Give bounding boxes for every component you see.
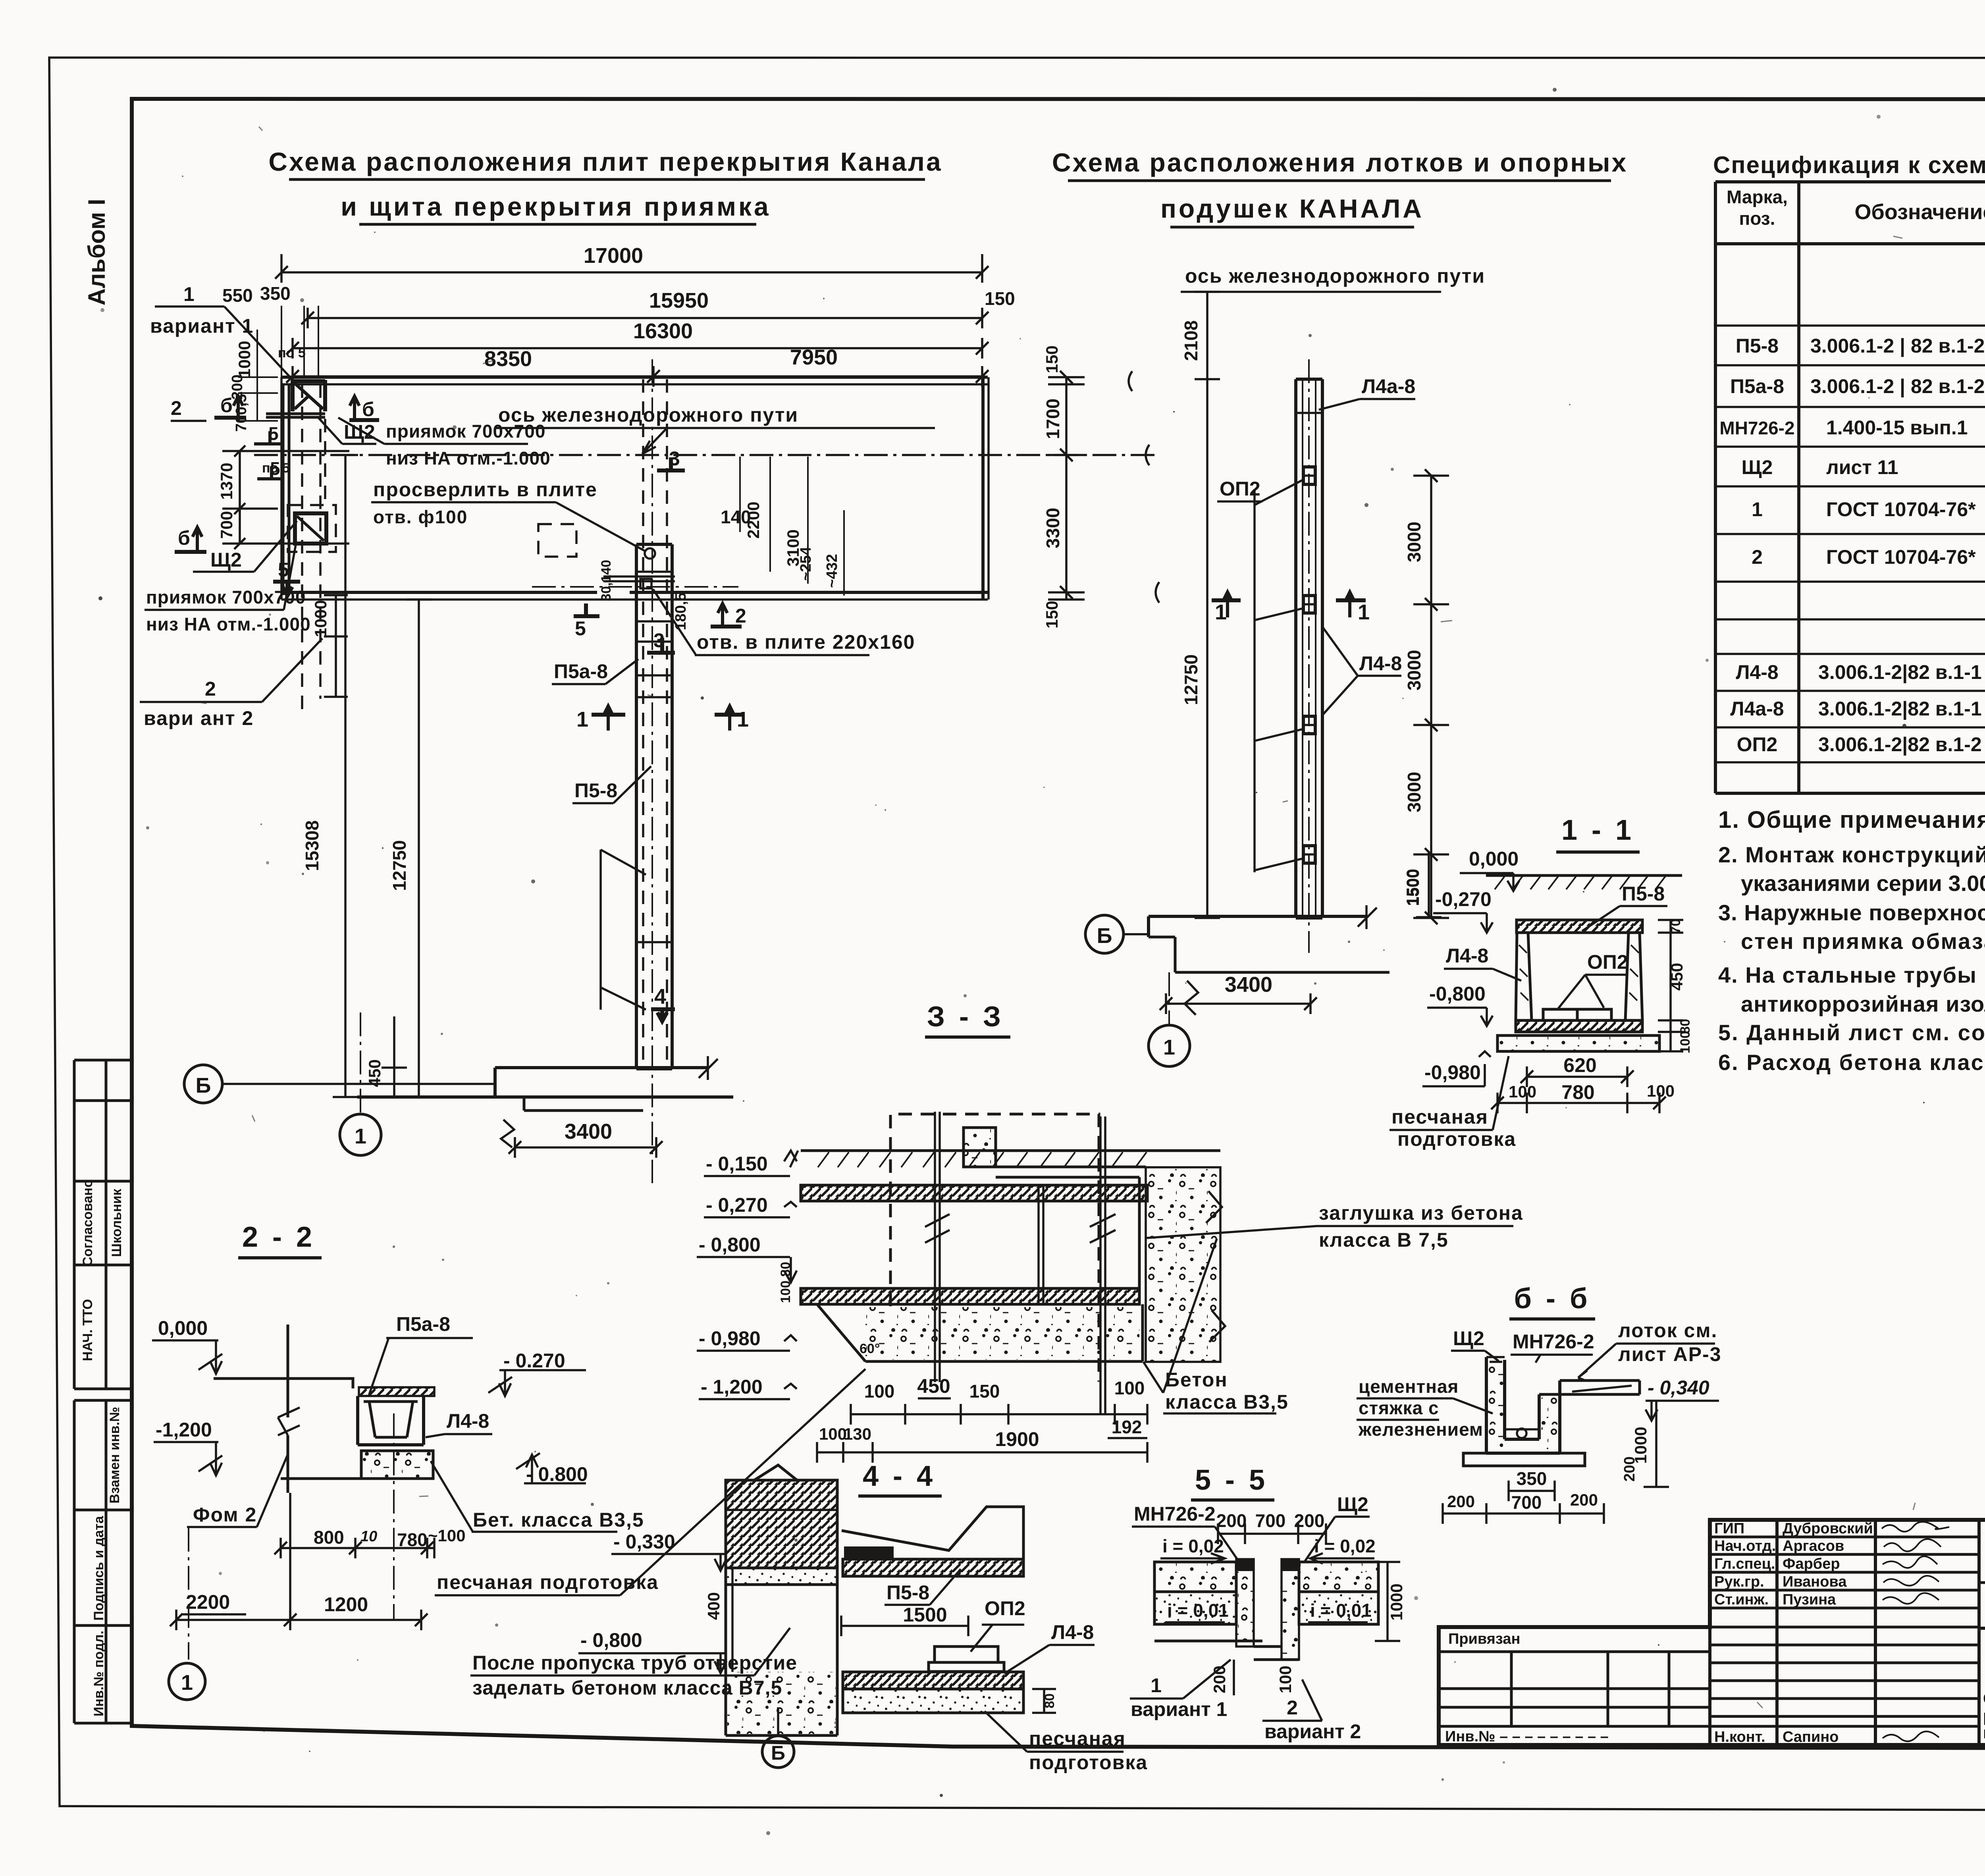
svg-text:1: 1 xyxy=(183,283,195,305)
svg-text:- 0,330: - 0,330 xyxy=(613,1531,675,1553)
level -0,800 xyxy=(1427,983,1493,1026)
svg-text:3000: 3000 xyxy=(1404,522,1424,562)
label П5-8 xyxy=(572,766,651,803)
svg-text:150: 150 xyxy=(985,288,1015,309)
section mark 5 near canal xyxy=(574,603,599,640)
svg-text:лоток см.: лоток см. xyxy=(1618,1319,1717,1342)
section mark 2 right xyxy=(711,603,746,628)
svg-text:вари ант 2: вари ант 2 xyxy=(144,707,254,729)
dashed small rect near canal junction xyxy=(538,524,576,557)
svg-text:- 0,270: - 0,270 xyxy=(706,1194,768,1216)
svg-text:3300: 3300 xyxy=(1043,508,1063,548)
section б-б title xyxy=(1509,1283,1595,1319)
label после пропуска труб xyxy=(470,1628,797,1699)
label: отв. в плите 220х160 xyxy=(653,589,915,655)
svg-text:- 0.270: - 0.270 xyxy=(503,1350,565,1372)
П5-8 slab band 4-4 xyxy=(843,1559,1023,1576)
svg-text:П5-8: П5-8 xyxy=(887,1581,929,1604)
level -0,270 sec2-2 xyxy=(488,1350,586,1396)
svg-text:Пузина: Пузина xyxy=(1783,1591,1836,1608)
svg-text:лист 11: лист 11 xyxy=(1826,456,1898,478)
svg-text:~254: ~254 xyxy=(798,547,814,581)
svg-text:3.006.1-2|82 в.1-1: 3.006.1-2|82 в.1-1 xyxy=(1818,661,1982,684)
ground top line sec2-2 xyxy=(214,1379,353,1388)
svg-text:780: 780 xyxy=(397,1529,428,1550)
svg-text:15308: 15308 xyxy=(302,820,322,871)
svg-text:песчаная: песчаная xyxy=(1029,1728,1126,1750)
label МН726-2 5-5 xyxy=(1132,1503,1239,1562)
svg-text:Схемы расположения плит перек: Схемы расположения плит перек xyxy=(1983,1689,1985,1708)
svg-text:620: 620 xyxy=(1563,1054,1596,1076)
svg-text:3400: 3400 xyxy=(565,1120,612,1143)
svg-text:1: 1 xyxy=(181,1671,193,1695)
svg-text:Схема расположения лотков и оп: Схема расположения лотков и опорных xyxy=(1052,148,1628,177)
black embed bar МН726-2 4-4 xyxy=(844,1546,894,1558)
svg-text:Рук.гр.: Рук.гр. xyxy=(1714,1573,1764,1590)
svg-text:ГИП: ГИП xyxy=(1714,1520,1744,1537)
dim 780 + 100s xyxy=(1491,1081,1675,1113)
svg-text:Аргасов: Аргасов xyxy=(1783,1538,1844,1554)
svg-text:4. На стальные трубы позици: 4. На стальные трубы позиции 1,2 наносит… xyxy=(1718,962,1985,987)
sand layer 4-4 xyxy=(843,1689,1023,1713)
svg-text:просверлить в плите: просверлить в плите xyxy=(373,478,597,501)
ground line 1-1 xyxy=(1486,875,1682,889)
svg-text:0,000: 0,000 xyxy=(158,1317,208,1339)
svg-text:Щ2: Щ2 xyxy=(1742,456,1773,478)
dim 15950 xyxy=(301,289,989,328)
svg-text:- 0,800: - 0,800 xyxy=(580,1629,642,1651)
svg-text:1: 1 xyxy=(1358,600,1370,624)
svg-text:1: 1 xyxy=(1215,600,1227,624)
diagonal plate marks xyxy=(601,850,646,1010)
svg-text:ГОСТ 10704-76*: ГОСТ 10704-76* xyxy=(1826,498,1976,521)
section 3-3 title xyxy=(925,1001,1010,1037)
svg-text:80: 80 xyxy=(1042,1693,1057,1708)
svg-text:низ НА отм.-1.000: низ НА отм.-1.000 xyxy=(146,614,311,634)
svg-text:Л4-8: Л4-8 xyxy=(447,1410,489,1432)
svg-text:вариант 1: вариант 1 xyxy=(1131,1698,1227,1720)
svg-text:ОП2: ОП2 xyxy=(1737,733,1778,756)
svg-text:70: 70 xyxy=(1668,919,1683,934)
dim 620 xyxy=(1521,1054,1634,1087)
svg-text:700: 700 xyxy=(1511,1492,1542,1513)
svg-text:вариант 2: вариант 2 xyxy=(1264,1720,1361,1743)
row П5-8 xyxy=(1736,335,1985,357)
svg-text:по 5: по 5 xyxy=(278,345,306,361)
svg-text:б: б xyxy=(362,398,374,420)
row Щ2 xyxy=(1742,456,1985,478)
svg-text:Фом 2: Фом 2 xyxy=(193,1504,257,1526)
level 0,000 sec2-2 xyxy=(152,1317,222,1374)
dim 2108 xyxy=(1181,292,1220,379)
svg-text:16300: 16300 xyxy=(633,319,693,343)
small dims near canal junction xyxy=(599,457,844,630)
svg-text:100,80: 100,80 xyxy=(778,1262,793,1303)
svg-text:700: 700 xyxy=(217,511,236,539)
svg-text:П5-8: П5-8 xyxy=(1622,883,1665,905)
section 5-5 title xyxy=(1191,1464,1274,1500)
axis circle 1 sec2-2 xyxy=(169,1528,205,1700)
svg-text:Л4а-8: Л4а-8 xyxy=(1730,698,1784,720)
vertical dim 15308 xyxy=(302,455,358,1097)
axis circle Б xyxy=(184,1065,495,1103)
support pads on column xyxy=(1303,467,1315,863)
svg-text:класса В 7,5: класса В 7,5 xyxy=(1319,1229,1449,1251)
svg-text:Гл.спец.: Гл.спец. xyxy=(1714,1556,1775,1572)
svg-text:17000: 17000 xyxy=(584,244,643,268)
section marks 1 pair xyxy=(576,706,749,731)
pit vertical edges xyxy=(283,384,289,595)
lower slab band 4-4 xyxy=(843,1672,1023,1689)
right dim chain 3000x3+1500 xyxy=(1403,469,1449,924)
svg-text:3.006.1-2 | 82 в.1-2: 3.006.1-2 | 82 в.1-2 xyxy=(1810,375,1985,398)
svg-text:- 0,800: - 0,800 xyxy=(699,1234,761,1256)
label Щ2 5-5 xyxy=(1304,1493,1370,1562)
section mark 5 upper xyxy=(254,423,284,479)
svg-text:П5а-8: П5а-8 xyxy=(396,1313,450,1335)
svg-text:ОП2: ОП2 xyxy=(985,1597,1025,1620)
svg-text:Школьник: Школьник xyxy=(109,1188,124,1257)
label МН726-2 б-б xyxy=(1511,1330,1594,1363)
levels 3-3 xyxy=(697,1151,798,1399)
svg-text:100: 100 xyxy=(1276,1666,1295,1693)
svg-text:МН726-2: МН726-2 xyxy=(1719,418,1794,438)
svg-text:3.006.1-2 | 82 в.1-2: 3.006.1-2 | 82 в.1-2 xyxy=(1810,335,1985,357)
sheet name xyxy=(1983,1689,1985,1757)
label Фом2 xyxy=(187,1454,288,1527)
svg-text:2: 2 xyxy=(1752,546,1763,568)
svg-text:1: 1 xyxy=(1752,498,1763,521)
variant 1 callout xyxy=(150,283,295,382)
svg-text:30,140: 30,140 xyxy=(599,560,614,601)
svg-text:Дубровский: Дубровский xyxy=(1783,1520,1873,1537)
row ОП2 xyxy=(1737,733,1985,756)
level -0,270 xyxy=(1433,888,1493,933)
svg-text:МН726-2: МН726-2 xyxy=(1513,1330,1594,1353)
svg-text:5. Данный лист см. совместн: 5. Данный лист см. совместно с листами м… xyxy=(1718,1020,1985,1045)
svg-text:200: 200 xyxy=(1447,1492,1475,1511)
break marks on rebar xyxy=(925,1214,1116,1243)
svg-text:1: 1 xyxy=(576,708,588,731)
dims 200 100 5-5 xyxy=(1210,1660,1295,1695)
svg-text:3000: 3000 xyxy=(1404,650,1424,690)
big doc number xyxy=(1979,1531,1985,1583)
section mark б lower-left xyxy=(175,527,206,553)
svg-text:Б: Б xyxy=(196,1074,211,1097)
small hole square xyxy=(640,579,651,588)
second slab band 3-3 xyxy=(801,1288,1139,1304)
role names xyxy=(1714,1520,1776,1745)
svg-text:2200: 2200 xyxy=(186,1591,230,1613)
svg-text:10: 10 xyxy=(360,1528,377,1545)
concrete block sec2-2 xyxy=(361,1451,433,1479)
label Щ2 б-б xyxy=(1451,1327,1499,1361)
title underline 1 xyxy=(289,178,925,181)
axis circle Б drawing2 xyxy=(1085,915,1149,953)
label П5-8 4-4 xyxy=(885,1569,961,1605)
svg-text:стен приямка обмазать горяч: стен приямка обмазать горячим битумом за… xyxy=(1741,929,1985,954)
svg-text:100: 100 xyxy=(1647,1082,1675,1100)
pad ОП2 4-4 xyxy=(929,1647,1004,1672)
svg-text:Щ2: Щ2 xyxy=(1337,1493,1368,1515)
svg-text:класса В3,5: класса В3,5 xyxy=(1165,1391,1289,1413)
svg-text:4: 4 xyxy=(654,985,666,1008)
pit (приямок) variant 1 top : Щ2 shield xyxy=(266,380,325,417)
top slab hatched sec2-2 xyxy=(359,1387,434,1396)
svg-text:П5-8: П5-8 xyxy=(574,779,617,802)
foundation mass 3-3 xyxy=(801,1304,1143,1361)
svg-text:1000: 1000 xyxy=(235,341,254,378)
level -0,800 sec2-2 xyxy=(516,1453,588,1485)
svg-text:Б: Б xyxy=(771,1742,785,1764)
label песчаная подготовка 1-1 xyxy=(1389,1056,1516,1150)
svg-text:ось железнодорожного пути: ось железнодорожного пути xyxy=(1185,265,1485,287)
svg-text:заглушка из бетона: заглушка из бетона xyxy=(1319,1202,1523,1224)
trough centerline sec2-2 xyxy=(393,1413,395,1620)
row МН726-2 xyxy=(1719,416,1985,439)
title block outline xyxy=(1439,1520,1985,1745)
svg-text:Привязан: Привязан xyxy=(1448,1631,1520,1647)
label Л4-8 xyxy=(1323,627,1402,715)
axis circle Б 4-4 xyxy=(762,1707,794,1768)
label: просверлить в плите отв. ф100 xyxy=(371,478,645,551)
svg-text:Щ2: Щ2 xyxy=(344,421,375,443)
svg-text:рытия КАНАЛА и щита перекрытия: рытия КАНАЛА и щита перекрытия xyxy=(1983,1706,1985,1725)
svg-text:1000: 1000 xyxy=(1387,1583,1406,1620)
svg-text:2: 2 xyxy=(205,678,216,700)
plate joint lines on vertical canal xyxy=(603,572,675,942)
svg-text:400: 400 xyxy=(704,1592,723,1620)
dims 350 700 200 б-б xyxy=(1443,1468,1604,1524)
svg-text:Схема расположения плит пер: Схема расположения плит перекрытия Канал… xyxy=(268,147,942,176)
variant 2 callout xyxy=(140,638,322,729)
dim 16300 xyxy=(286,319,989,359)
svg-text:1. Общие примечания см. лист: 1. Общие примечания см. лист 1. xyxy=(1718,806,1985,833)
section mark 5 lower xyxy=(273,559,300,596)
stage row xyxy=(1979,1628,1985,1745)
svg-text:б - б: б - б xyxy=(1514,1283,1591,1315)
svg-text:780: 780 xyxy=(1561,1081,1594,1103)
i=0,02 labels 5-5 xyxy=(1160,1536,1376,1564)
svg-text:3000: 3000 xyxy=(1404,772,1424,812)
trough Л4-8 sec2-2 xyxy=(358,1396,424,1445)
vertical canal band xyxy=(636,359,672,1183)
svg-text:ОП2: ОП2 xyxy=(1587,951,1628,973)
dims 2200 1200 xyxy=(170,1493,428,1630)
svg-text:Инв.№ – – – – – – – –: Инв.№ – – – – – – – – – xyxy=(1445,1728,1609,1745)
table grid xyxy=(1715,182,1985,793)
dim 3400 plan xyxy=(509,1120,663,1158)
svg-text:3.006.1-2|82 в.1-1: 3.006.1-2|82 в.1-1 xyxy=(1818,698,1982,720)
svg-text:Л4-8: Л4-8 xyxy=(1446,945,1488,967)
svg-text:Бетон: Бетон xyxy=(1165,1369,1228,1391)
svg-text:Л4-8: Л4-8 xyxy=(1736,661,1778,683)
dim 12750 drawing2 xyxy=(1181,379,1220,918)
svg-text:i = 0,02: i = 0,02 xyxy=(1162,1536,1224,1556)
svg-text:3400: 3400 xyxy=(1225,973,1272,997)
svg-text:- 0.800: - 0.800 xyxy=(526,1463,588,1485)
canal band top edge xyxy=(281,376,988,379)
svg-text:1: 1 xyxy=(355,1124,366,1148)
svg-text:1900: 1900 xyxy=(995,1428,1039,1450)
label цементная стяжка xyxy=(1357,1376,1493,1440)
svg-text:192: 192 xyxy=(1112,1417,1142,1437)
svg-text:Щ2: Щ2 xyxy=(210,549,242,571)
svg-text:Л4-8: Л4-8 xyxy=(1051,1621,1094,1643)
svg-text:2: 2 xyxy=(735,605,746,627)
svg-text:поз.: поз. xyxy=(1739,208,1775,229)
channel б-б xyxy=(1486,1357,1560,1453)
svg-text:Согласовано: Согласовано xyxy=(80,1179,95,1267)
svg-text:-0,800: -0,800 xyxy=(1429,983,1486,1005)
walls 5-5 xyxy=(1236,1559,1299,1660)
svg-text:5 - 5: 5 - 5 xyxy=(1195,1464,1268,1496)
margin stamp boxes lower xyxy=(74,1400,132,1723)
svg-text:низ НА отм.-1.000: низ НА отм.-1.000 xyxy=(386,448,551,469)
right concrete mass 3-3 xyxy=(1146,1167,1225,1362)
svg-text:подготовка: подготовка xyxy=(1029,1751,1148,1774)
svg-text:180,5: 180,5 xyxy=(673,592,689,630)
svg-text:5: 5 xyxy=(575,617,586,640)
pit Щ2 shield lower xyxy=(295,513,326,544)
vertical dim 12750 xyxy=(389,600,432,1097)
left dim chain rotated labels xyxy=(217,330,349,697)
svg-text:приямка,лотков и опорных подуш: приямка,лотков и опорных подушек xyxy=(1983,1723,1985,1742)
svg-text:1500: 1500 xyxy=(903,1604,947,1626)
right slab 5-5 xyxy=(1299,1562,1378,1624)
dims 200 700 200 5-5 xyxy=(1216,1510,1326,1544)
svg-text:Спецификация к схемам располож: Спецификация к схемам расположения элеме… xyxy=(1713,152,1985,178)
person names xyxy=(1783,1520,1873,1745)
svg-text:150: 150 xyxy=(1043,345,1061,373)
left small dims 3-3 xyxy=(778,1262,793,1303)
svg-text:1.400-15 вып.1: 1.400-15 вып.1 xyxy=(1826,416,1968,439)
svg-text:ОП2: ОП2 xyxy=(1220,478,1260,500)
dim 550 350 xyxy=(222,283,318,377)
svg-text:Нач.отд.: Нач.отд. xyxy=(1714,1538,1776,1554)
section mark б top xyxy=(349,396,379,422)
row poz 1 xyxy=(1752,493,1985,532)
svg-text:150: 150 xyxy=(1043,601,1061,629)
label лоток см. лист АР-3 xyxy=(1578,1319,1722,1381)
svg-text:П5а-8: П5а-8 xyxy=(1730,375,1784,397)
base plate б-б xyxy=(1463,1453,1585,1466)
dim 1000 б-б xyxy=(1631,1401,1669,1487)
svg-text:5: 5 xyxy=(278,559,289,581)
svg-text:2. Монтаж конструкций канала: 2. Монтаж конструкций канала производить… xyxy=(1718,842,1985,867)
svg-text:350: 350 xyxy=(260,283,291,304)
svg-text:подготовка: подготовка xyxy=(1397,1128,1516,1150)
row poz 2 xyxy=(1752,540,1985,578)
axis circle 1 drawing2 xyxy=(1149,972,1190,1066)
svg-text:Подпись и дата: Подпись и дата xyxy=(91,1515,106,1621)
row П5а-8 xyxy=(1730,375,1985,398)
svg-text:Взамен инв.№: Взамен инв.№ xyxy=(107,1407,122,1504)
svg-text:1370: 1370 xyxy=(217,463,236,499)
svg-text:П5а-8: П5а-8 xyxy=(554,660,608,683)
svg-text:заделать бетоном класса В7,5: заделать бетоном класса В7,5 xyxy=(472,1677,782,1699)
label П5-8 sec1-1 xyxy=(1582,883,1667,931)
section mark 4 on vertical canal xyxy=(651,985,675,1021)
axis label xyxy=(496,404,935,454)
svg-text:0,000: 0,000 xyxy=(1469,848,1519,870)
foundation step bottom of plan xyxy=(357,1056,733,1147)
hatched wall column 4-4 xyxy=(726,1465,837,1568)
dim 1000 5-5 xyxy=(1375,1562,1406,1641)
svg-text:150: 150 xyxy=(969,1381,1000,1402)
level -0,330 xyxy=(611,1531,727,1571)
i=0,01 labels 5-5 xyxy=(1165,1600,1372,1622)
svg-text:МН726-2: МН726-2 xyxy=(1134,1503,1216,1525)
top joint xyxy=(1296,412,1322,414)
svg-text:цементная: цементная xyxy=(1359,1376,1459,1397)
svg-text:П5-8: П5-8 xyxy=(1736,335,1779,357)
row Л4а-8 xyxy=(1730,698,1985,720)
label Л4-8 4-4 xyxy=(1004,1621,1095,1674)
svg-text:450: 450 xyxy=(1667,963,1686,991)
section mark 2-б left xyxy=(171,394,246,422)
label Л4а-8 xyxy=(1319,375,1415,410)
svg-text:и щита перекрытия приямка: и щита перекрытия приямка xyxy=(341,192,771,221)
svg-text:- 0,150: - 0,150 xyxy=(706,1153,768,1175)
level -0,800 sec4-4 xyxy=(578,1629,727,1673)
svg-text:200: 200 xyxy=(1216,1510,1247,1531)
dim 17000 xyxy=(275,244,989,283)
axis circle 1 below plan xyxy=(340,1012,381,1155)
right dims sec1-1 xyxy=(1658,919,1693,1053)
rebar pairs 3-3 xyxy=(935,1112,1105,1413)
svg-text:800: 800 xyxy=(314,1527,344,1548)
svg-text:15950: 15950 xyxy=(649,289,709,312)
right dim chain of plan xyxy=(1043,345,1085,629)
svg-text:приямок 700х700: приямок 700х700 xyxy=(146,587,306,607)
svg-text:-0,270: -0,270 xyxy=(1435,888,1492,910)
svg-text:6. Расход бетона класса В: 6. Расход бетона класса В15,W6 на приямк… xyxy=(1718,1050,1985,1075)
svg-text:1: 1 xyxy=(1151,1674,1162,1697)
dim 8350 / 7950 xyxy=(286,345,989,387)
svg-text:450: 450 xyxy=(917,1375,950,1397)
svg-text:i = 0,02: i = 0,02 xyxy=(1314,1536,1376,1556)
label песчаная подготовка 4-4 xyxy=(985,1711,1148,1774)
svg-text:антикоррозийная изоляция в с: антикоррозийная изоляция в соответствии … xyxy=(1741,991,1985,1016)
wall vertical with break sec2-2 xyxy=(278,1325,300,1493)
svg-text:Иванова: Иванова xyxy=(1783,1573,1847,1590)
svg-text:Сапино: Сапино xyxy=(1783,1729,1839,1745)
svg-text:4 - 4: 4 - 4 xyxy=(863,1460,936,1492)
level -0,980 xyxy=(1422,1051,1491,1086)
svg-text:1700: 1700 xyxy=(1043,399,1063,439)
right step plates б-б xyxy=(1539,1380,1640,1394)
svg-text:Инв.№ подл.: Инв.№ подл. xyxy=(91,1631,106,1716)
svg-text:100: 100 xyxy=(864,1381,895,1402)
svg-text:1500: 1500 xyxy=(1404,869,1422,906)
level 0.000 xyxy=(1460,848,1519,891)
section 2-2 title xyxy=(238,1221,322,1258)
svg-text:12750: 12750 xyxy=(389,840,410,891)
svg-text:железнением: железнением xyxy=(1358,1419,1483,1440)
top slab band 3-3 xyxy=(801,1185,1147,1201)
dim 3400 drawing2 xyxy=(1160,973,1317,1014)
svg-text:200: 200 xyxy=(1570,1490,1598,1509)
svg-text:Марка,: Марка, xyxy=(1727,187,1788,207)
svg-text:2200: 2200 xyxy=(744,501,763,538)
svg-text:100: 100 xyxy=(1509,1082,1536,1101)
dashed trench box 3-3 xyxy=(890,1114,1099,1382)
svg-text:Бет. класса В3,5: Бет. класса В3,5 xyxy=(473,1509,644,1531)
svg-text:200: 200 xyxy=(1621,1456,1638,1481)
column body below 4-4 xyxy=(726,1585,837,1735)
svg-text:Б: Б xyxy=(1097,924,1112,948)
